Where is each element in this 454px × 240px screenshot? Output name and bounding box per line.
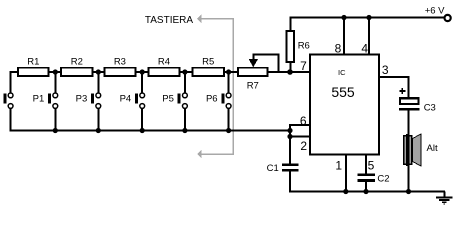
svg-text:P1: P1: [33, 94, 45, 105]
svg-text:P6: P6: [206, 94, 218, 105]
svg-text:C2: C2: [377, 174, 389, 185]
svg-text:4: 4: [361, 42, 368, 56]
svg-text:555: 555: [331, 84, 355, 100]
svg-text:+6 V: +6 V: [425, 6, 445, 17]
svg-text:C1: C1: [267, 163, 279, 174]
svg-text:R3: R3: [114, 57, 126, 68]
svg-text:1: 1: [335, 159, 342, 173]
svg-text:P3: P3: [76, 94, 88, 105]
svg-text:R6: R6: [298, 41, 310, 52]
svg-text:6: 6: [300, 114, 307, 128]
svg-text:C3: C3: [424, 103, 436, 114]
svg-text:R5: R5: [202, 57, 214, 68]
svg-text:R7: R7: [247, 81, 259, 92]
svg-text:R1: R1: [27, 57, 39, 68]
svg-text:P4: P4: [120, 94, 132, 105]
svg-text:7: 7: [300, 59, 307, 73]
svg-text:8: 8: [335, 42, 342, 56]
svg-text:2: 2: [300, 139, 307, 153]
svg-text:3: 3: [382, 63, 389, 77]
svg-text:R4: R4: [158, 57, 170, 68]
svg-text:TASTIERA: TASTIERA: [145, 15, 193, 26]
svg-text:5: 5: [368, 159, 375, 173]
svg-text:P5: P5: [162, 94, 174, 105]
svg-text:R2: R2: [71, 57, 83, 68]
svg-text:IC: IC: [338, 68, 346, 77]
svg-text:Alt: Alt: [427, 143, 438, 154]
